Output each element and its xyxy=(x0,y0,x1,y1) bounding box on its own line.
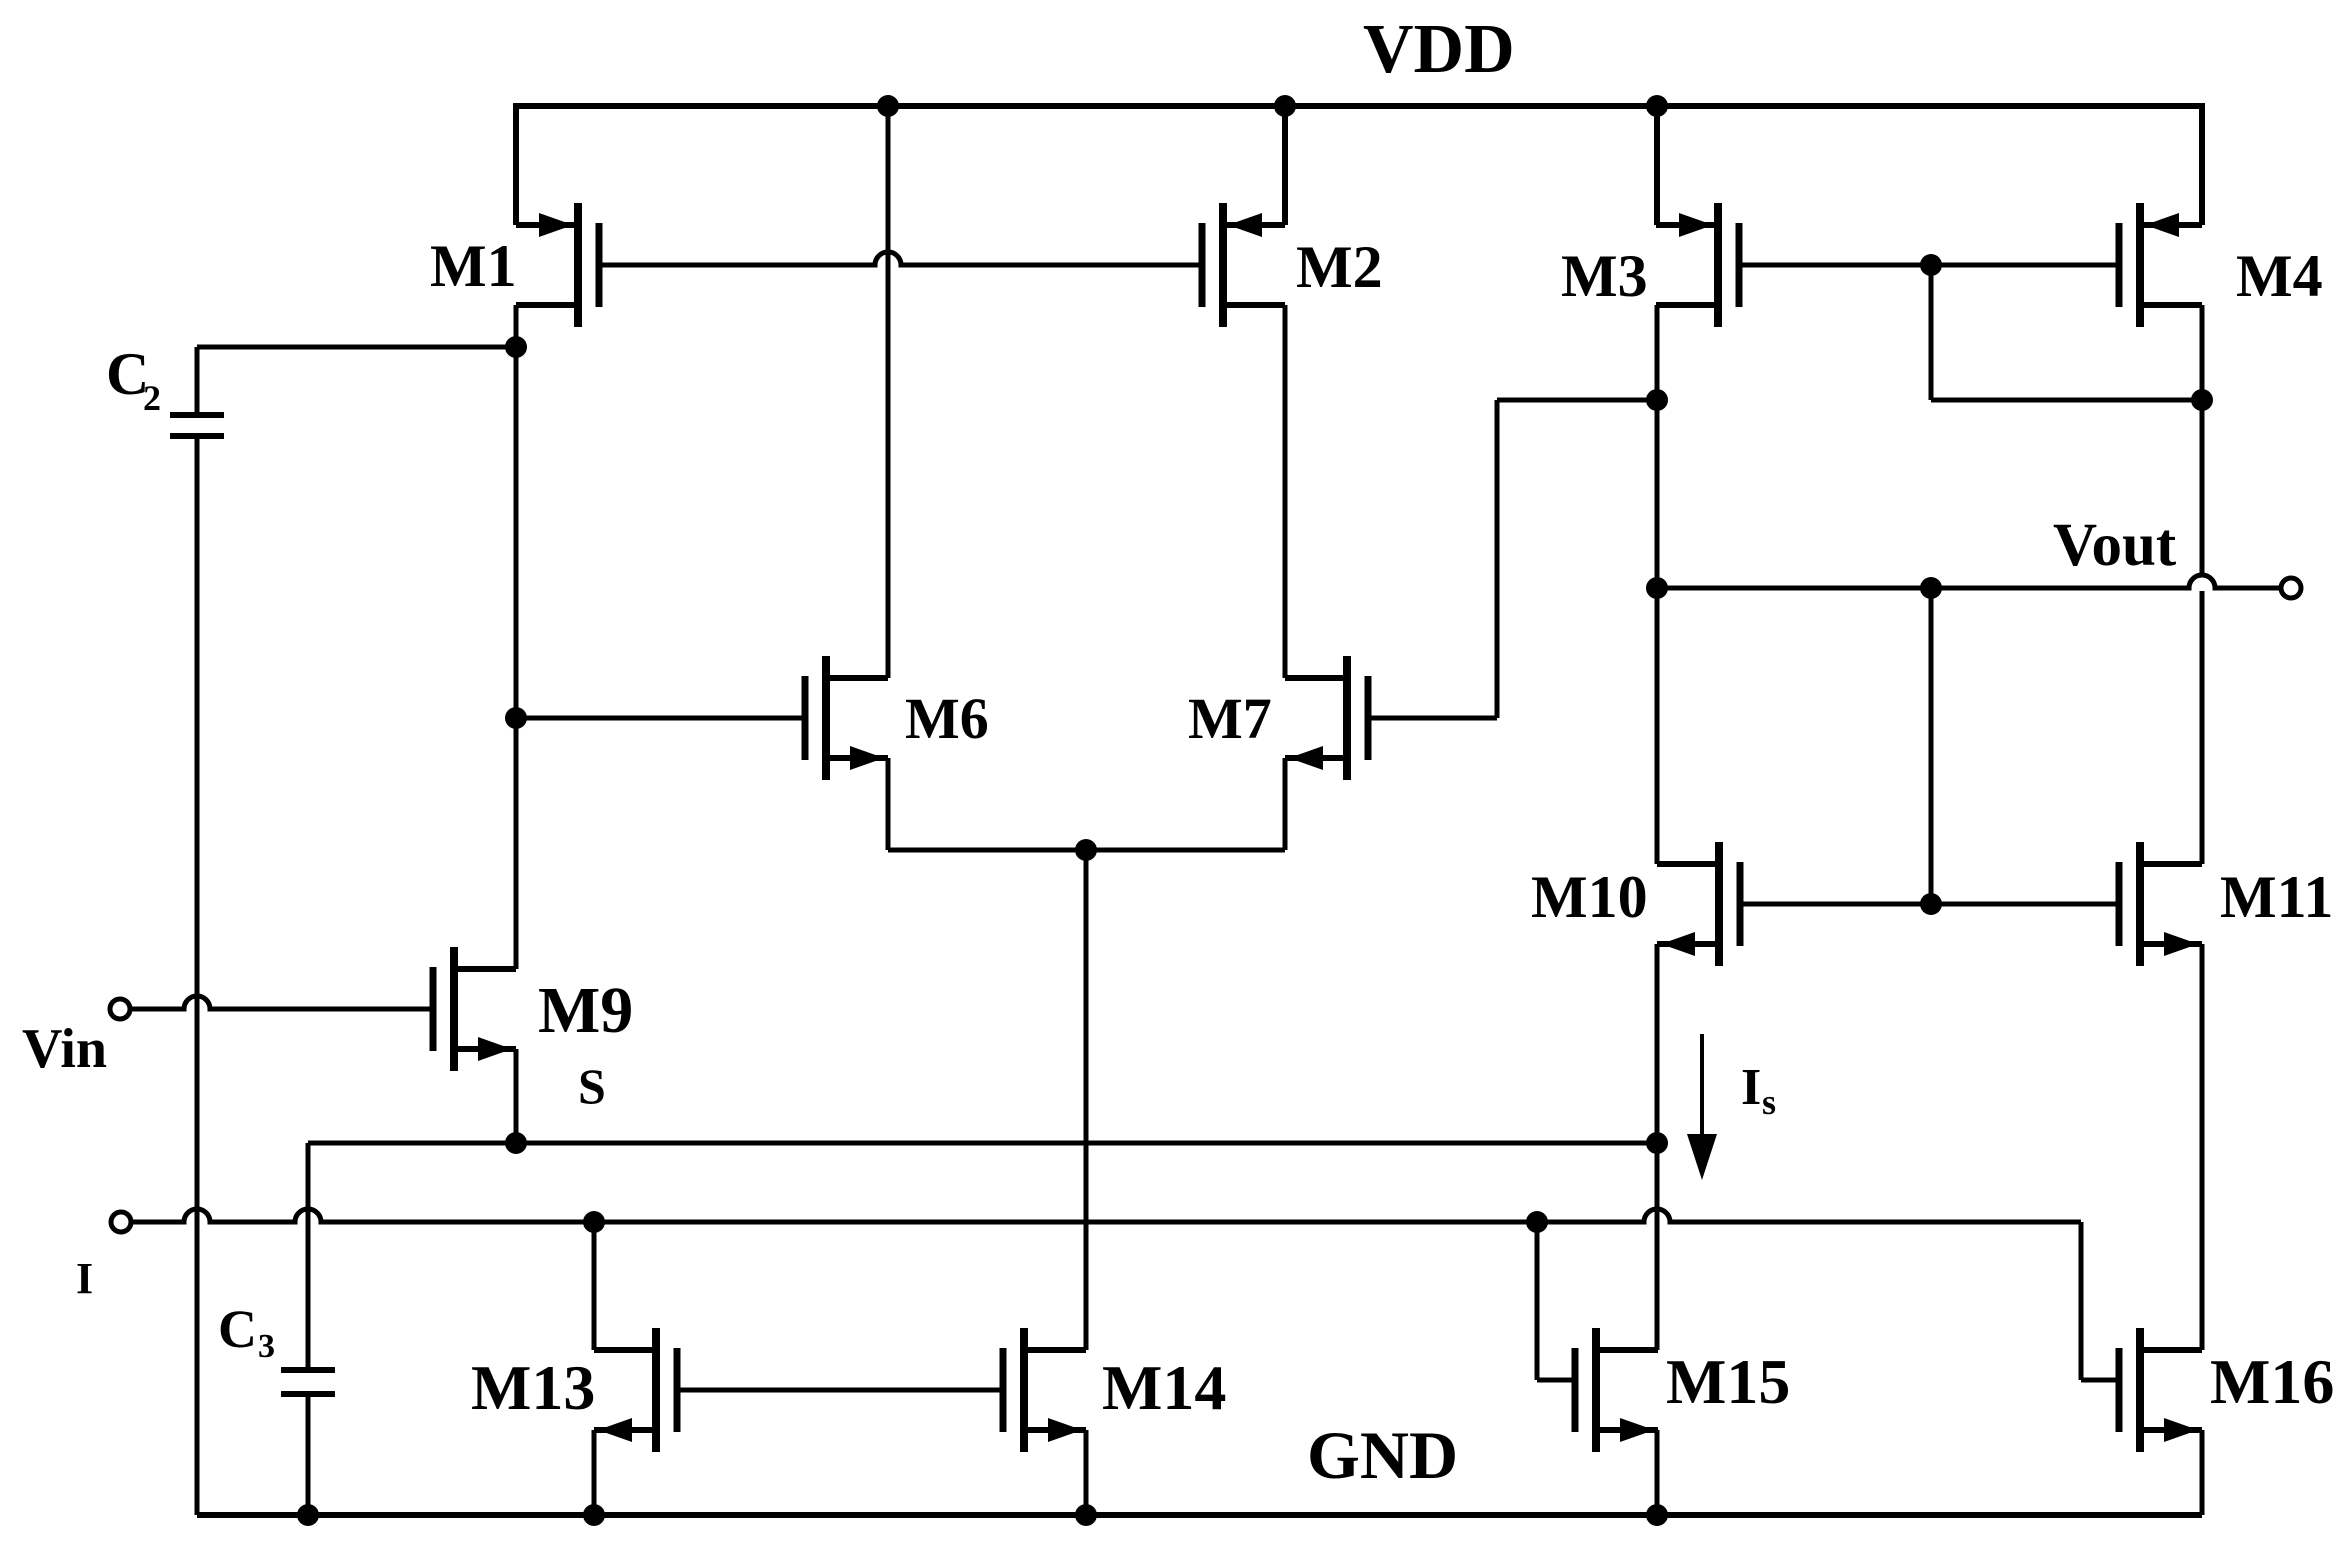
node I / M13 drain xyxy=(583,1211,605,1233)
wire C2 bottom lead / left rail xyxy=(195,439,200,1515)
wire VDD to M6 drain vertical xyxy=(886,106,891,678)
wire M3 source drop xyxy=(1654,106,1660,225)
transistor M2 xyxy=(1202,203,1285,327)
wire C2 branch xyxy=(197,345,516,350)
wire M11 source to M16 drain vertical xyxy=(2200,944,2205,1350)
wire Vout to M10/M11 gate vertical xyxy=(1929,588,1934,904)
node GND / M13 xyxy=(583,1504,605,1526)
wire M4/M11 drain vertical xyxy=(2200,305,2205,577)
wire M14 source drop xyxy=(1084,1430,1089,1515)
wire M4 gate-drain jog vertical xyxy=(1929,265,1934,400)
wire M6 source drop xyxy=(886,758,891,850)
svg-text:M16: M16 xyxy=(2210,1346,2334,1417)
wire M16 source drop xyxy=(2200,1430,2205,1515)
node S line meets M10 source xyxy=(1646,1132,1668,1154)
wire M10-M11 gate line xyxy=(1739,902,2119,907)
node S junction xyxy=(505,1132,527,1154)
transistor M9 xyxy=(433,947,516,1071)
wire Z-link vertical xyxy=(1495,400,1500,718)
wire S line xyxy=(308,1141,1657,1146)
wire M2 source drop xyxy=(1282,106,1288,225)
current arrow Is xyxy=(1687,1034,1717,1180)
transistor M10 xyxy=(1657,842,1740,966)
svg-text:S: S xyxy=(578,1058,606,1114)
node Vout / gate drop xyxy=(1920,577,1942,599)
node I / M15 gate xyxy=(1526,1211,1548,1233)
transistor M3 xyxy=(1656,203,1739,327)
wire VDD rail xyxy=(516,103,2202,109)
wire Z-link to M7 gate bar xyxy=(1367,716,1497,721)
svg-text:M1: M1 xyxy=(430,233,517,299)
capacitor C2 xyxy=(170,415,224,436)
node M3 drain / M7 gate tie xyxy=(1646,389,1668,411)
wire M4 source riser to VDD xyxy=(2199,103,2205,225)
wire M1 source drop from VDD xyxy=(513,103,519,225)
wire M13 source drop xyxy=(592,1430,597,1515)
node M3-M4 gate junction xyxy=(1920,254,1942,276)
svg-text:GND: GND xyxy=(1307,1417,1458,1493)
svg-text:M4: M4 xyxy=(2236,243,2323,309)
node M1 drain / C2 tap xyxy=(505,336,527,358)
capacitor C3 xyxy=(281,1370,335,1394)
svg-text:Vin: Vin xyxy=(22,1018,107,1080)
svg-text:M7: M7 xyxy=(1188,686,1272,751)
wire M6/M7 source tail rail xyxy=(888,848,1285,853)
node GND / M14 xyxy=(1075,1504,1097,1526)
wire C3 bottom lead xyxy=(306,1397,311,1515)
wire M1 drain vertical xyxy=(514,305,519,969)
svg-text:VDD: VDD xyxy=(1363,11,1515,88)
terminal I port xyxy=(111,1212,131,1232)
node GND / C3 xyxy=(297,1504,319,1526)
node VDD-M6 junction xyxy=(877,95,899,117)
wire M4 gate-drain jog horizontal xyxy=(1931,398,2202,403)
wire C2 top lead xyxy=(195,347,200,412)
node GND / M15 xyxy=(1646,1504,1668,1526)
svg-text:M15: M15 xyxy=(1666,1346,1790,1417)
svg-text:Vout: Vout xyxy=(2053,512,2177,579)
svg-text:M10: M10 xyxy=(1531,864,1648,930)
wire Vout line with hop xyxy=(1657,575,2281,588)
svg-text:M2: M2 xyxy=(1296,234,1383,300)
terminal Vin port xyxy=(110,999,130,1019)
wire M3-M4 gate line xyxy=(1739,263,2119,268)
transistor M13 xyxy=(594,1328,677,1452)
node M10-M11 gate junction xyxy=(1920,893,1942,915)
svg-text:C: C xyxy=(218,1299,257,1359)
svg-text:M14: M14 xyxy=(1102,1352,1226,1423)
svg-text:M11: M11 xyxy=(2220,864,2333,930)
node VDD-M3 junction xyxy=(1646,95,1668,117)
wire GND rail xyxy=(197,1512,2202,1518)
wire M13 drain riser xyxy=(592,1222,597,1350)
node M1 drain / M6 gate tap xyxy=(505,707,527,729)
terminal Vout port xyxy=(2281,578,2301,598)
wire M1-M2 gate line with hop xyxy=(599,252,1202,265)
wire M7 source drop xyxy=(1283,758,1288,850)
wire M15 source drop xyxy=(1655,1430,1660,1515)
wire Z-link M3 drain to M7 gate: horizontal xyxy=(1497,398,1657,403)
svg-text:I: I xyxy=(1741,1059,1761,1116)
transistor M4 xyxy=(2119,203,2202,327)
node VDD-M2 junction xyxy=(1274,95,1296,117)
transistor M7 xyxy=(1285,656,1368,780)
svg-text:2: 2 xyxy=(143,378,161,418)
wire I to M16 gate drop xyxy=(2079,1222,2084,1380)
wire I line with hops xyxy=(131,1209,2081,1222)
transistor M6 xyxy=(805,656,888,780)
node M4 drain-gate tie xyxy=(2191,389,2213,411)
transistor M11 xyxy=(2119,842,2202,966)
wire M15 gate drop xyxy=(1535,1222,1540,1380)
wire S to C3 drop xyxy=(306,1143,311,1367)
wire M6 gate line xyxy=(516,716,805,721)
wire M2/M7 drain vertical xyxy=(1283,305,1288,678)
wire M3/M10 drain vertical xyxy=(1655,305,1660,864)
svg-text:s: s xyxy=(1762,1082,1776,1122)
svg-text:M3: M3 xyxy=(1561,243,1648,309)
svg-text:M9: M9 xyxy=(538,974,633,1047)
svg-text:M6: M6 xyxy=(905,686,989,751)
wire M13-M14 gate line xyxy=(677,1388,1003,1393)
wire tail to M14 drain xyxy=(1084,850,1089,1350)
wire M9 source drop xyxy=(514,1049,519,1143)
wire M10 source / S vertical xyxy=(1655,944,1660,1350)
wire M16 gate link xyxy=(2081,1378,2121,1383)
svg-text:I: I xyxy=(76,1254,93,1303)
node tail junction xyxy=(1075,839,1097,861)
transistor M1 xyxy=(516,203,599,327)
transistor M16 xyxy=(2119,1328,2202,1452)
transistor M14 xyxy=(1003,1328,1086,1452)
wire M15 gate link xyxy=(1537,1378,1578,1383)
wire Vin line with hop xyxy=(131,996,433,1009)
node Vout / M3 drain xyxy=(1646,577,1668,599)
svg-text:3: 3 xyxy=(258,1328,275,1365)
transistor M15 xyxy=(1575,1328,1658,1452)
svg-text:M13: M13 xyxy=(471,1352,595,1423)
